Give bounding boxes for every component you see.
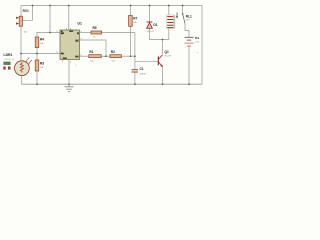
resistor R5 [91, 31, 102, 34]
LDR LDR1 [15, 61, 30, 76]
svg-text:R7: R7 [133, 17, 137, 21]
resistor R1 [89, 55, 101, 58]
svg-text:TORCH_LD: TORCH_LD [4, 59, 15, 61]
svg-text:CV: CV [75, 56, 79, 59]
wire pot bottom to LDR [20, 27, 22, 62]
diode D1 [147, 21, 153, 23]
node dot base node [134, 55, 136, 57]
wire R7 column [130, 6, 132, 16]
node dot R7-R2 wire [130, 55, 132, 57]
svg-text:R1: R1 [89, 50, 93, 54]
svg-text:RV1: RV1 [23, 9, 29, 13]
wire IC out to R5 [80, 32, 92, 34]
wire base wire [135, 60, 158, 62]
node dot rail-coil [168, 5, 170, 7]
svg-text:+: + [197, 51, 199, 55]
svg-text:10k: 10k [133, 22, 137, 24]
wire LDR bottom [21, 76, 23, 85]
svg-text:LDR1: LDR1 [4, 53, 13, 57]
svg-text:12V: 12V [186, 20, 190, 22]
svg-text:5: 5 [76, 65, 77, 67]
svg-text:RL1: RL1 [186, 14, 192, 18]
svg-text:10k: 10k [24, 32, 28, 34]
node dot rail-switch [182, 5, 184, 7]
node dot rail-RV1 wiper [32, 5, 34, 7]
wire IC top pin [68, 6, 70, 31]
node dot rail-D1 [149, 5, 151, 7]
svg-text:10k: 10k [90, 61, 94, 63]
potentiometer RV1 [19, 16, 22, 26]
wire Q1 collector [162, 40, 164, 55]
svg-text:10k: 10k [111, 61, 115, 63]
wire VCC drop to R pin line [49, 6, 51, 33]
node dot rail-IC vcc [68, 5, 70, 7]
LDR down button (red) [4, 67, 6, 70]
wire Q1 emitter to rail [162, 67, 164, 84]
wire R4 bottom lead [36, 48, 38, 54]
wire IC TH pin to R1 [80, 55, 89, 57]
svg-text:100nF: 100nF [140, 73, 147, 75]
U1 pin-name ink marks [61, 31, 79, 59]
wire IC DC pin to node [80, 40, 107, 56]
wire R5 out to R7 column [102, 32, 135, 34]
svg-text:R3: R3 [40, 62, 44, 66]
wire right column [201, 6, 203, 85]
svg-text:10k: 10k [40, 43, 44, 45]
node dot rail-R3 [36, 83, 38, 85]
node dot divider-LDR [20, 53, 22, 55]
wire top rail [21, 5, 202, 7]
svg-text:Q: Q [77, 32, 79, 35]
svg-text:R4: R4 [40, 38, 44, 42]
svg-text:BC237: BC237 [165, 56, 172, 58]
wire switch bottom to battery [185, 24, 189, 37]
wire R4 top to IC TR [37, 33, 60, 38]
wire R3 leads [36, 54, 38, 61]
wire R2 to node [121, 55, 135, 57]
transistor Q1 [157, 56, 159, 65]
wire RV1 wiper to rail [22, 6, 32, 21]
svg-text:R2: R2 [111, 50, 115, 54]
svg-text:1k: 1k [93, 37, 96, 39]
node dot rail-R7 [130, 5, 132, 7]
wire bottom rail [22, 83, 203, 85]
svg-text:1N4148: 1N4148 [147, 31, 155, 33]
svg-text:24k: 24k [40, 67, 44, 69]
svg-text:C1: C1 [140, 67, 144, 71]
wire C1 node column [134, 56, 136, 69]
wire battery bottom to rail [188, 46, 190, 84]
svg-text:1: 1 [70, 62, 72, 64]
battery B1 [185, 36, 194, 38]
svg-text:DC: DC [75, 40, 79, 43]
wire divider node to IC [21, 53, 60, 55]
svg-text:GND: GND [63, 58, 68, 60]
wire R1 to R2 [101, 55, 110, 57]
resistor R2 [110, 55, 121, 58]
node dot divider-R4R3 [36, 53, 38, 55]
node dot rail-battery [188, 83, 190, 85]
resistor R3 [35, 60, 39, 71]
wire coil top [168, 6, 170, 16]
svg-text:12V: 12V [195, 41, 199, 43]
wire IC ground pin [68, 60, 70, 85]
svg-text:D1: D1 [153, 23, 157, 27]
ground [68, 84, 70, 87]
wire R5 output bend down to base node [134, 33, 136, 57]
node dot rail-emitter [162, 83, 164, 85]
resistor R4 [35, 37, 39, 48]
svg-text:TH: TH [61, 53, 64, 56]
svg-text:B1: B1 [195, 36, 199, 40]
node dot TR line [49, 32, 51, 34]
relay coil RL1 [167, 15, 175, 29]
node dot rail-x50 [49, 5, 51, 7]
node dot rail-IC gnd [68, 83, 70, 85]
svg-text:VCC: VCC [69, 31, 74, 33]
resistor R7 [129, 15, 133, 26]
node dot DC-R1R2 [105, 55, 107, 57]
node dot rail-C1 [134, 83, 136, 85]
relay actuation arrow [176, 13, 178, 18]
svg-text:Q1: Q1 [165, 50, 169, 54]
relay switch blade [183, 14, 185, 24]
wire left column (RV1/LDR chain) [20, 6, 22, 17]
node dot collector-D1 wire [162, 39, 164, 41]
wire C1 bottom to rail [134, 72, 136, 84]
op-amp U1 (555 timer IC) [60, 30, 80, 60]
wire D1 column top [149, 6, 151, 23]
wire switch pole stub [182, 6, 184, 14]
LDR up button (green) [4, 62, 10, 65]
svg-text:U1: U1 [78, 22, 82, 26]
wire D1 bottom to coil bottom [150, 28, 169, 39]
capacitor C1 [132, 69, 139, 71]
svg-text:R5: R5 [93, 26, 97, 30]
